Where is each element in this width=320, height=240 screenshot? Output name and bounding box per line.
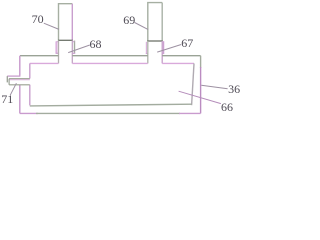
plate inner top line bbox=[30, 62, 194, 64]
column post 70 bbox=[59, 4, 73, 41]
leader line 36 bbox=[201, 85, 227, 89]
plate inner right wall bbox=[192, 63, 194, 105]
leader line 71 bbox=[10, 83, 16, 95]
plate top edge (outer) bbox=[20, 55, 201, 57]
leader line 66 bbox=[179, 91, 221, 103]
column post 69 bbox=[148, 3, 162, 41]
plate outer left wall bbox=[19, 56, 21, 114]
plate inner left wall bbox=[29, 63, 31, 105]
flange 67 bbox=[146, 41, 164, 53]
label 68 bbox=[90, 38, 102, 50]
label 69 bbox=[123, 14, 135, 26]
leader line 67 bbox=[157, 45, 181, 53]
leader line 68 bbox=[68, 45, 90, 53]
label 67 bbox=[181, 37, 193, 49]
plate outer bottom edge bbox=[20, 112, 38, 114]
collar line column 69 base bbox=[147, 40, 162, 42]
plug left lower edge bbox=[8, 79, 10, 85]
slot top magenta fringe bbox=[9, 79, 30, 81]
label 36 bbox=[228, 83, 240, 95]
tab 71 left edge bbox=[6, 76, 8, 82]
collar line column 70 base bbox=[58, 39, 73, 41]
slot bottom line bbox=[9, 84, 30, 86]
flange 68 bbox=[56, 41, 76, 54]
label 71 bbox=[1, 93, 13, 105]
leader line 70 bbox=[44, 23, 59, 29]
shaft of post 69 through wall bbox=[148, 41, 162, 63]
slot top line bbox=[9, 78, 30, 80]
plate outer right wall 36 bbox=[200, 56, 202, 68]
shaft of post 70 through wall bbox=[59, 40, 73, 63]
tab 71 top bbox=[7, 75, 20, 77]
label 66 bbox=[221, 101, 233, 113]
leader line 69 bbox=[135, 23, 149, 30]
label 70 bbox=[32, 13, 44, 25]
plate inner bottom line bbox=[30, 104, 192, 106]
